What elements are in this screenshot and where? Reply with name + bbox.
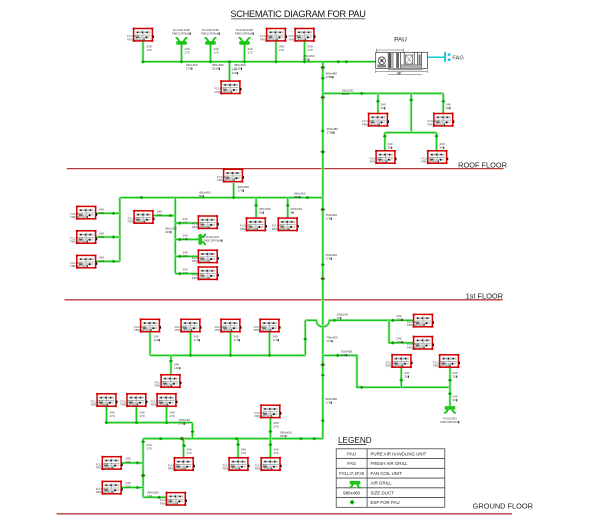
wire grill G3 drop [243, 45, 246, 62]
junction F23 duct [228, 354, 232, 358]
size label g5 [453, 395, 458, 403]
size label xover [337, 313, 349, 321]
junction F13 stub [168, 214, 172, 218]
junction F20 stub [391, 341, 395, 345]
wire ground cluster duct [150, 354, 305, 357]
junction roof branch [360, 92, 364, 96]
FCU unit F1 [127, 28, 154, 42]
wire crossover branch [305, 320, 413, 327]
wire cluster2 join vertical [191, 423, 194, 439]
esp left lower riser [141, 473, 146, 477]
junction F12 stub [111, 260, 115, 264]
esp riser mid [320, 363, 325, 367]
junction F6 drop [441, 100, 445, 104]
svg-text:F80C/2P/9x9▮: F80C/2P/9x9▮ [172, 32, 192, 36]
wire FCU F18 drop [286, 198, 289, 219]
FCU unit F30 [151, 393, 178, 407]
svg-text:478▮: 478▮ [303, 58, 310, 62]
size label f18 [291, 207, 303, 215]
wire FCU F26 drop [400, 368, 403, 387]
svg-text:170▮: 170▮ [238, 189, 245, 193]
wire FCU F14 stub [175, 222, 198, 225]
svg-text:AIR GRILL: AIR GRILL [371, 481, 393, 486]
svg-text:170▮: 170▮ [326, 401, 333, 405]
svg-text:980x480: 980x480 [343, 490, 360, 495]
svg-text:170: 170 [187, 451, 192, 455]
label grill G5 [440, 416, 460, 424]
svg-text:F80C/2P/9x9▮: F80C/2P/9x9▮ [235, 32, 255, 36]
size label duct4 [303, 54, 315, 62]
junction F3 duct [302, 60, 306, 64]
esp riser g [320, 277, 325, 281]
FCU unit F34 [168, 457, 195, 471]
FAG duct cyan [427, 56, 444, 58]
svg-text:170: 170 [147, 447, 152, 451]
wire cluster2 duct [107, 421, 193, 424]
svg-text:F80C/2P/9x9▮: F80C/2P/9x9▮ [427, 122, 445, 126]
size label midv [165, 227, 177, 235]
svg-text:F80C/2P/9x9▮: F80C/2P/9x9▮ [91, 403, 109, 407]
junction F16 stub [178, 272, 182, 276]
svg-text:170: 170 [99, 211, 104, 215]
svg-text:FRESH AIR GRILL: FRESH AIR GRILL [371, 461, 409, 466]
wire FCU F17 drop [255, 198, 258, 219]
svg-text:4▮: 4▮ [291, 211, 295, 215]
size label f19 [397, 314, 404, 322]
size label 1duct1 [199, 191, 211, 199]
wire FCU F3 drop [303, 41, 306, 62]
svg-text:170▮: 170▮ [341, 353, 348, 357]
FCU unit F4 [215, 80, 242, 94]
wire ground left riser [304, 320, 307, 355]
svg-text:FAG: FAG [452, 55, 464, 61]
esp riser d [320, 150, 325, 154]
PAU unit U1 [376, 49, 428, 75]
svg-text:170: 170 [99, 259, 104, 263]
FCU unit F24 [254, 318, 281, 332]
junction G5 drop [448, 392, 452, 396]
junction duct r2 [344, 60, 348, 64]
svg-text:170▮: 170▮ [326, 339, 333, 343]
junction duct r1 [336, 60, 340, 64]
svg-text:F80C/2P/9x9▮: F80C/2P/9x9▮ [151, 403, 169, 407]
svg-text:170: 170 [214, 51, 219, 55]
svg-text:FCU,I7,2F,I8: FCU,I7,2F,I8 [339, 471, 364, 476]
svg-text:LEGEND: LEGEND [338, 436, 372, 445]
svg-text:F80C/2P/9x9▮: F80C/2P/9x9▮ [362, 122, 380, 126]
wire FCU F32 stub [121, 462, 143, 465]
svg-text:170: 170 [147, 494, 152, 498]
size label f5 [381, 103, 386, 111]
svg-text:170: 170 [126, 485, 131, 489]
wire roof mid vertical [410, 93, 413, 132]
wire FCU F12 stub [95, 260, 120, 263]
size label f35 [241, 448, 246, 456]
junction riser f [321, 263, 325, 267]
junction F19 stub [391, 319, 395, 323]
svg-text:F80C/2P/9x9▮: F80C/2P/9x9▮ [217, 178, 235, 182]
junction G3 duct [242, 60, 246, 64]
wire FCU F25 drop [170, 355, 173, 374]
junction cluster2 join [191, 430, 195, 434]
FCU unit F23 [215, 318, 242, 332]
size label f24 [273, 335, 280, 343]
svg-text:F80C/2P/9x9▮: F80C/2P/9x9▮ [155, 384, 173, 388]
air grill G2 [205, 38, 216, 45]
svg-text:F80C/2P/9x9▮: F80C/2P/9x9▮ [192, 259, 210, 263]
junction cluster2 c [165, 421, 169, 425]
size label f6 [446, 103, 451, 111]
FCU unit F29 [121, 393, 148, 407]
junction lower duct c [312, 437, 316, 441]
svg-text:F80C/2P/9x9▮: F80C/2P/9x9▮ [128, 220, 146, 224]
FCU unit F36 [255, 457, 282, 471]
svg-text:F80C/2P/9x9▮: F80C/2P/9x9▮ [433, 364, 451, 368]
legend row 3 [339, 471, 402, 476]
junction crossover right [332, 319, 336, 323]
FCU unit F14 [192, 215, 219, 229]
svg-text:170▮: 170▮ [186, 66, 193, 70]
svg-text:2018: 2018 [342, 92, 349, 96]
junction lower duct a [159, 437, 163, 441]
junction F10 stub [111, 212, 115, 216]
svg-text:F80C/2P/9x9▮: F80C/2P/9x9▮ [440, 420, 460, 424]
svg-text:F80C/2P/9x9▮: F80C/2P/9x9▮ [175, 328, 193, 332]
svg-text:F80C/2P/9x9▮: F80C/2P/9x9▮ [134, 328, 152, 332]
svg-text:PAU: PAU [394, 37, 407, 44]
air grill G5 [445, 406, 456, 413]
svg-text:170▮: 170▮ [326, 257, 333, 261]
wire FCU F13 stub [153, 214, 175, 217]
svg-text:F80C/2P/9x9▮: F80C/2P/9x9▮ [168, 467, 186, 471]
junction F26 drop [399, 378, 403, 382]
junction F25 drop [169, 359, 173, 363]
svg-text:F80C/2P/9x9▮: F80C/2P/9x9▮ [272, 227, 290, 231]
size label f25 [174, 363, 181, 371]
svg-text:F80C/2P/9x9▮: F80C/2P/9x9▮ [96, 466, 114, 470]
label grill G1 [172, 28, 192, 36]
junction F27 drop [448, 378, 452, 382]
size label 1duct2 [294, 192, 306, 200]
FCU unit F8 [421, 150, 448, 164]
svg-text:F80C/2P/9x9▮: F80C/2P/9x9▮ [289, 37, 307, 41]
size label duct2 [212, 63, 224, 71]
size label d1 [147, 45, 152, 53]
junction F18 drop [286, 204, 290, 208]
FCU unit F31 [255, 404, 282, 418]
junction F14 stub [178, 221, 182, 225]
roof floor line [67, 168, 504, 170]
svg-text:F80C/2P/9x9▮: F80C/2P/9x9▮ [192, 225, 210, 229]
svg-text:F80C/2P/9x9▮: F80C/2P/9x9▮ [70, 215, 88, 219]
wire FCU F37 stub [143, 496, 166, 499]
wire main riser [321, 62, 324, 439]
FCU unit F11 [70, 230, 97, 244]
size label f13 [157, 210, 162, 218]
svg-text:F80C/2P/9x9▮: F80C/2P/9x9▮ [215, 328, 233, 332]
wire FCU F20 vertical [389, 320, 414, 343]
wire grill G1 drop [180, 45, 183, 62]
svg-text:140▮: 140▮ [174, 366, 181, 370]
FCU unit F12 [70, 255, 97, 269]
junction riser h [321, 373, 325, 377]
svg-text:30▮: 30▮ [446, 106, 451, 110]
svg-text:30▮: 30▮ [388, 146, 393, 150]
wire ground right branch [323, 355, 450, 387]
size label riser3 [326, 213, 338, 221]
svg-text:ESP FOR PAU: ESP FOR PAU [371, 500, 400, 505]
wire FCU F21 drop [149, 332, 152, 356]
size label f34 [187, 448, 192, 456]
svg-text:F80C/2P/9x9▮: F80C/2P/9x9▮ [421, 160, 439, 164]
legend title [338, 436, 372, 445]
svg-text:F80C/2P/9x9▮: F80C/2P/9x9▮ [223, 467, 241, 471]
size label d5 [279, 45, 284, 53]
svg-text:F80C/2P/9x9▮: F80C/2P/9x9▮ [127, 37, 145, 41]
legend row 1 [347, 451, 426, 456]
svg-text:F80C/2P/9x9▮: F80C/2P/9x9▮ [215, 90, 233, 94]
FCU unit F22 [175, 318, 202, 332]
junction through down [268, 443, 272, 447]
ground floor line [57, 513, 512, 515]
svg-text:170: 170 [183, 254, 188, 258]
svg-text:170▮: 170▮ [397, 318, 404, 322]
svg-text:F80C/2P/9x9▮: F80C/2P/9x9▮ [255, 467, 273, 471]
wire FCU F2 drop [275, 41, 278, 62]
junction F5 drop [376, 100, 380, 104]
FCU unit F28 [91, 393, 118, 407]
junction top duct corner [141, 60, 145, 64]
svg-text:2788▮: 2788▮ [326, 75, 335, 79]
junction F4 duct [227, 60, 231, 64]
svg-text:30▮: 30▮ [453, 398, 458, 402]
svg-text:170: 170 [279, 48, 284, 52]
FCU unit F7 [370, 150, 397, 164]
junction lower duct b [299, 437, 303, 441]
FCU unit F15 [192, 249, 219, 263]
size label f27 [453, 371, 458, 379]
junction F35 drop [236, 443, 240, 447]
wire FCU F22 drop [189, 332, 192, 356]
svg-text:F80C/2P/9x9▮: F80C/2P/9x9▮ [255, 414, 273, 418]
FCU unit F37 [160, 492, 187, 506]
size label rbranch [341, 350, 353, 358]
FCU unit F33 [96, 481, 123, 495]
svg-text:170: 170 [126, 460, 131, 464]
legend grill symbol [350, 481, 361, 488]
svg-text:170: 170 [183, 271, 188, 275]
label grill G3 [235, 28, 255, 36]
air grill G3 [239, 38, 250, 45]
svg-text:170▮: 170▮ [273, 338, 280, 342]
FCU unit F18 [272, 217, 299, 231]
size label f12 [99, 256, 104, 264]
esp lower duct [179, 437, 184, 441]
FCU unit F21 [134, 318, 161, 332]
FCU unit F6 [427, 113, 454, 127]
size label f8 [440, 142, 445, 150]
FCU unit F26 [386, 354, 413, 368]
svg-text:2018▮: 2018▮ [212, 66, 221, 70]
title SCHEMATIC DIAGRAM FOR PAU [230, 9, 365, 19]
svg-text:170▮: 170▮ [194, 338, 201, 342]
junction F34 drop [182, 444, 186, 448]
legend table [336, 449, 445, 508]
size label llriser [147, 443, 152, 451]
junction ground left riser [303, 337, 307, 341]
svg-text:SCHEMATIC DIAGRAM FOR PAU: SCHEMATIC DIAGRAM FOR PAU [230, 9, 365, 19]
junction F11 stub [111, 235, 115, 239]
size label riser1 [326, 72, 338, 80]
junction right branch b [360, 386, 364, 390]
junction F2 duct [274, 60, 278, 64]
size label d3 [214, 47, 219, 55]
size label f32 [126, 457, 131, 465]
esp riser a [320, 65, 325, 69]
size label f11 [99, 232, 104, 240]
size label f22 [194, 335, 201, 343]
air grill G4 [198, 234, 205, 245]
svg-text:170: 170 [241, 451, 246, 455]
svg-text:F80C/2P/9x9▮: F80C/2P/9x9▮ [370, 160, 388, 164]
wire FCU F23 drop [229, 332, 232, 356]
wire FCU F11 stub [95, 236, 120, 239]
svg-text:PURE AIR HANDLING UNIT: PURE AIR HANDLING UNIT [371, 451, 427, 456]
junction F9 duct [232, 196, 236, 200]
size label f20 [397, 337, 404, 345]
svg-text:170: 170 [140, 414, 145, 418]
wire FCU F16 stub [175, 272, 198, 275]
label grill G2 [201, 28, 221, 36]
svg-text:170: 170 [185, 51, 190, 55]
size label riser4 [326, 253, 338, 261]
size label f28 [110, 411, 115, 419]
wire FCU F28 drop [105, 407, 108, 423]
svg-text:170: 170 [110, 414, 115, 418]
junction lower duct corner [141, 440, 145, 444]
svg-text:170: 170 [248, 51, 253, 55]
svg-text:170: 170 [274, 425, 279, 429]
legend row 5 [343, 490, 394, 495]
size label riser6 [326, 397, 338, 405]
wire grill G2 drop [209, 45, 212, 62]
esp riser e [320, 207, 325, 211]
wire FCU F9 drop [232, 183, 235, 198]
wire FCU F15 stub [175, 255, 198, 258]
wire 1st mid vertical [174, 198, 177, 274]
size label c2duct [179, 418, 191, 426]
size label f16 [183, 268, 188, 276]
size label f31 [274, 421, 279, 429]
wire FCU F34 drop [182, 439, 185, 458]
FCU unit F3 [289, 28, 316, 42]
wire ground lower duct [143, 437, 323, 440]
junction F7 drop [383, 134, 387, 138]
wire FCU F7 drop [383, 133, 386, 151]
FCU unit F16 [192, 266, 219, 280]
junction roof mid vert [409, 98, 413, 102]
FCU unit F5 [362, 113, 389, 127]
svg-text:FAN COIL UNIT: FAN COIL UNIT [371, 471, 403, 476]
wire FCU F27 drop [449, 368, 452, 387]
wire roof branch [323, 92, 444, 95]
junction F24 duct [267, 354, 271, 358]
wire FCU F6 drop [442, 93, 445, 113]
FCU unit F17 [240, 217, 267, 231]
svg-text:F80C/2P/9x9▮: F80C/2P/9x9▮ [70, 264, 88, 268]
label grill G4 [204, 235, 224, 243]
size label f9 [238, 185, 250, 193]
junction 1st duct a [139, 196, 143, 200]
svg-text:F80C/2P/9x9▮: F80C/2P/9x9▮ [96, 490, 114, 494]
svg-text:30▮: 30▮ [381, 106, 386, 110]
wire grill G4 stub [175, 238, 198, 241]
svg-text:F80C/2P/9x9▮: F80C/2P/9x9▮ [204, 238, 224, 242]
size label f4 [232, 68, 239, 76]
air grill G1 [176, 38, 187, 45]
wire FCU F35 drop [237, 439, 240, 458]
junction F33 stub [135, 486, 139, 489]
junction F17 drop [254, 204, 258, 208]
FCU unit F32 [96, 456, 123, 470]
svg-text:F80C/2P/9x9▮: F80C/2P/9x9▮ [192, 276, 210, 280]
wire FCU F4 drop [228, 62, 231, 81]
junction F32 stub [135, 461, 139, 465]
svg-text:SIZE DUCT: SIZE DUCT [371, 490, 394, 495]
svg-text:F80C/2P/9x9▮: F80C/2P/9x9▮ [260, 37, 278, 41]
svg-text:17▮: 17▮ [183, 237, 188, 241]
svg-text:140▮: 140▮ [154, 338, 161, 342]
size label f17 [259, 207, 271, 215]
svg-text:2788▮: 2788▮ [327, 131, 336, 135]
svg-text:FAG: FAG [347, 461, 356, 466]
size label f26 [404, 371, 409, 379]
FCU unit F35 [223, 457, 250, 471]
svg-text:170▮: 170▮ [179, 422, 186, 426]
size label f23 [234, 335, 241, 343]
svg-text:30▮: 30▮ [404, 375, 409, 379]
legend row 6 [371, 500, 400, 505]
svg-text:GROUND FLOOR: GROUND FLOOR [473, 501, 533, 510]
size label f30 [170, 411, 175, 419]
svg-text:F80C/2P/9x9▮: F80C/2P/9x9▮ [121, 403, 139, 407]
wire FCU F31-F36 through drop [269, 418, 272, 458]
size label g4 [183, 234, 188, 242]
wire FCU F5 drop [377, 93, 380, 113]
svg-text:170: 170 [147, 48, 152, 52]
svg-text:30▮: 30▮ [440, 146, 445, 150]
FCU unit F13 [128, 210, 155, 224]
svg-text:50▮: 50▮ [199, 194, 204, 198]
junction G4 stub [178, 238, 182, 242]
wire top duct [143, 60, 376, 63]
legend row 2 [347, 461, 408, 466]
svg-text:4▮0: 4▮0 [397, 71, 402, 75]
wire FCU F24 drop [268, 332, 271, 356]
svg-text:170: 170 [99, 235, 104, 239]
junction F37 stub [157, 496, 161, 500]
size label f33 [126, 481, 131, 489]
junction riser b [321, 77, 325, 81]
svg-text:170: 170 [308, 48, 313, 52]
svg-text:F80C/2P/9x9▮: F80C/2P/9x9▮ [70, 240, 88, 244]
junction F8 drop [434, 134, 438, 138]
junction through up [268, 430, 272, 433]
wire 1st floor duct [120, 196, 323, 199]
size label f21 [154, 335, 161, 343]
legend row 4 [371, 481, 393, 486]
junction F35 duct [234, 437, 238, 441]
